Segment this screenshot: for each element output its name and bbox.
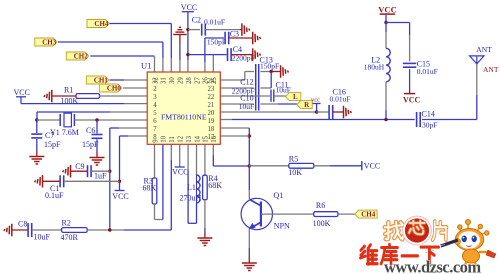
svg-text:12: 12 [178,135,185,142]
svg-text:10uF: 10uF [239,102,254,111]
wire CH4 to pin30 [109,23,172,25]
port CH3 [35,38,57,46]
wire Q1 collector [248,166,250,190]
svg-text:5: 5 [153,110,157,117]
svg-text:CH4: CH4 [94,20,109,28]
svg-text:150pF: 150pF [260,62,279,71]
svg-text:29: 29 [178,77,185,84]
node vcc tap [315,110,318,113]
port R [297,101,312,109]
svg-text:19: 19 [208,118,215,125]
wire R4 to ground [204,200,206,228]
svg-text:270uH: 270uH [180,194,202,203]
svg-text:ANT: ANT [476,45,492,54]
svg-text:3: 3 [153,94,157,101]
wire CH2 to pin32 [90,55,154,57]
wire pin23 through C12 [220,87,254,89]
inductor L1 [196,144,198,175]
svg-text:R2: R2 [62,219,71,228]
svg-text:C14: C14 [422,110,435,119]
svg-text:10K: 10K [288,168,302,177]
node pin17 junction [248,134,251,137]
svg-text:18: 18 [208,126,215,133]
wire pin7 down-left to C9 node [119,127,147,129]
svg-text:R6: R6 [316,201,325,210]
wire VCC to pin4 [20,97,22,104]
wire pin22 to C11 [220,95,270,97]
node C9 junction [108,170,111,173]
wire VCC to C15 [386,22,410,24]
transistor Q1 [241,198,272,229]
node L2 bottom junction [384,118,387,121]
wire ground to C8 [12,229,28,231]
wire C12 right hook up to ground node [260,87,271,89]
ground on pin29 inverted [173,34,187,36]
power VCC under pin12 [179,144,181,167]
svg-text:27: 27 [194,77,201,84]
svg-text:16: 16 [211,135,218,142]
svg-text:21: 21 [208,102,215,109]
capacitor C14 [416,112,418,127]
svg-text:25: 25 [211,77,218,84]
op-amp U1 FMT80110NE IC body [147,72,220,144]
svg-text:15: 15 [203,135,210,142]
wire ground to C9 [71,170,88,172]
antenna ANT [470,56,484,64]
wire pin18 to Q1 node [220,127,249,129]
power VCC below C1 node [119,181,121,190]
wire C11 to port L [275,95,286,97]
svg-text:VCC: VCC [112,192,128,201]
wire CH1 to pin1 [110,79,125,81]
svg-text:470R: 470R [61,233,79,242]
svg-text:10: 10 [161,135,168,142]
capacitor C15 [403,62,417,64]
node C1 junction [118,180,121,183]
wire C3 to ground [229,37,253,39]
ground right of C13 [280,65,282,78]
svg-text:FMT80110NE: FMT80110NE [161,113,207,122]
inductor L2 [385,23,387,33]
wire pin8 down-left to C1 node [128,135,147,137]
svg-text:R5: R5 [289,154,298,163]
capacitor C16 [317,111,330,113]
svg-text:R1: R1 [64,85,73,94]
capacitor C2 [188,29,200,31]
svg-text:30: 30 [169,77,176,84]
wire C2 to ground [205,29,240,31]
power vcc small [316,104,318,113]
svg-text:C3: C3 [230,30,239,39]
ground right of C16 [343,106,345,119]
svg-text:CH0: CH0 [107,85,122,93]
svg-text:68K: 68K [208,181,222,190]
wire pin15 to R4 [204,144,206,175]
svg-text:CH2: CH2 [74,53,89,61]
ground right of C2 [241,23,243,35]
port CH4 output [355,210,377,218]
wire C7 to ground [36,139,38,151]
svg-text:150pF: 150pF [207,37,226,46]
resistor R3 [152,178,157,204]
svg-text:2: 2 [153,86,157,93]
wire C13 to ground node [260,71,271,73]
wire C9 to node [91,170,110,172]
svg-text:VCC: VCC [403,96,421,105]
wire R5 to VCC [314,165,330,167]
svg-text:C6: C6 [86,126,95,135]
svg-text:VCC: VCC [181,3,197,12]
wire crystal left segment [37,119,60,121]
svg-text:15pF: 15pF [44,140,61,149]
wire C6 to ground [96,139,98,152]
watermark zhao xin pian outline text [385,222,403,240]
svg-text:L: L [293,93,298,101]
svg-text:20: 20 [208,110,215,117]
port CH1 [86,76,108,84]
svg-text:0.01uF: 0.01uF [417,67,438,76]
svg-text:68K: 68K [143,184,157,193]
wire VCC down pin28 [187,12,189,60]
wire ground to C1 [43,180,60,182]
port CH2 [66,52,88,60]
node C13 ground junction [270,70,273,73]
svg-text:31: 31 [161,77,168,84]
svg-text:1uF: 1uF [94,172,107,181]
svg-text:0.1uF: 0.1uF [45,191,64,200]
wire C8 to R2 [32,229,62,231]
capacitor C11 [270,90,272,102]
wire CH0 to pin2 [123,87,147,89]
wire collector node to R5 [249,165,288,167]
svg-text:13: 13 [186,135,193,142]
svg-text:4: 4 [153,102,157,109]
resistor R2 [62,228,88,233]
ground right of C3 [252,32,254,45]
wire Q1 emitter to ground [248,229,250,248]
svg-text:10uF: 10uF [34,233,51,242]
capacitor C1 [59,175,61,187]
wire pin9 to R3 [154,144,156,178]
crystal Y1 [59,114,61,126]
node crystal right [95,118,98,121]
svg-text:www.dzsc.com: www.dzsc.com [384,258,481,274]
wire pin16 right to Q1 node [212,144,214,155]
node crystal left [35,118,38,121]
wire to ground [271,71,280,73]
wire pin20 to C16 row [220,111,316,113]
svg-text:C2: C2 [192,16,201,25]
capacitor C9 [87,165,89,177]
svg-text:C8: C8 [18,220,27,229]
svg-text:CH3: CH3 [42,39,57,47]
svg-text:100K: 100K [313,219,331,228]
watermark weiku text [361,245,378,264]
svg-text:CH4: CH4 [361,211,376,219]
svg-text:C9: C9 [75,162,84,171]
svg-text:11: 11 [169,136,176,143]
node Q1 collector junction [248,164,251,167]
svg-text:7: 7 [153,126,157,133]
ground below C6 [90,157,105,159]
capacitor C6 [96,120,98,133]
svg-text:14: 14 [194,135,201,142]
power VCC right of R5 [361,161,363,170]
wire crystal right to pin6 [74,119,97,121]
resistor R5 [289,163,314,168]
wire C14 to antenna [422,119,477,121]
wire C1 to node [64,180,120,182]
svg-text:28: 28 [186,77,193,84]
svg-text:U1: U1 [141,61,151,71]
svg-text:9: 9 [152,139,159,143]
wire pin25 and VCC to C4 [212,55,214,72]
svg-text:CH1: CH1 [94,77,109,85]
wire pin24 to C13 [220,79,245,81]
wire ground to R1 [52,95,76,97]
svg-text:6: 6 [153,118,157,125]
resistor R6 [314,212,338,217]
wire CH3 to pin31 [58,41,163,43]
node VCC L2 junction [384,21,387,24]
watermark mascot [455,220,489,264]
node C4 junction [186,53,189,56]
capacitor C4 [227,48,229,61]
ground below R4 [197,237,212,239]
resistor R1 [76,94,100,99]
node R2 junction [108,228,111,231]
capacitor C7 [36,120,38,133]
wire pin19 long line to antenna [220,119,232,121]
wire pin17 [220,135,249,137]
wire R3 bottom loop to pin10 [154,204,156,220]
svg-text:ANT: ANT [483,65,499,74]
wire C9 node down to R2 row [109,171,111,230]
svg-text:L1: L1 [187,183,196,192]
svg-text:23: 23 [208,86,215,93]
wire Q1 base to R6 [261,213,314,215]
svg-text:C12: C12 [240,78,253,87]
svg-text:0.01uF: 0.01uF [204,18,225,27]
svg-text:VCC: VCC [172,168,188,177]
port L [286,93,301,101]
svg-text:26: 26 [203,77,210,84]
wire pin5 to crystal left [110,111,147,113]
ground at C9 [70,165,72,178]
capacitor C3 [224,32,226,45]
wire pin21 through C10 to port R [220,103,254,105]
node C2 junction [186,28,189,31]
wire R1 to pin3 [100,95,148,97]
svg-text:30pF: 30pF [422,121,437,130]
ground at R1 [51,90,53,103]
port CH4 [87,20,109,28]
svg-text:180uH: 180uH [364,63,385,72]
wire pin13 loop to L1 bottom [187,144,189,170]
wire C16 to ground [333,111,344,113]
wire R2 to pin11 [87,229,124,231]
resistor R4 [203,175,208,200]
svg-text:VCC: VCC [14,88,30,97]
watermark pen [428,240,458,251]
wire C4 to ground [231,54,253,56]
ground at C8 [11,224,13,237]
wire pin26 to C3 [204,62,206,72]
ground right of C4 [252,48,254,61]
wire L2 to long line [385,82,387,110]
power VCC below C15 [409,69,411,90]
ground below Q1 [242,262,257,264]
ground below C7 [29,156,44,158]
wire up to pin11 [170,160,172,230]
port CH0 [99,84,121,92]
svg-text:Q1: Q1 [274,191,284,200]
capacitor C8 [27,223,29,237]
wire R6 to CH4 port [338,213,355,215]
svg-text:32: 32 [152,77,159,84]
svg-text:22: 22 [208,94,215,101]
svg-text:VCC: VCC [364,161,380,170]
capacitor plate column C12 C13 C10 [255,64,257,111]
svg-text:NPN: NPN [274,222,290,231]
svg-text:vcc: vcc [311,96,320,103]
svg-text:VCC: VCC [378,5,396,15]
svg-text:0.01uF: 0.01uF [330,94,351,103]
svg-text:C7: C7 [45,131,54,140]
ground at C1 [42,175,44,188]
